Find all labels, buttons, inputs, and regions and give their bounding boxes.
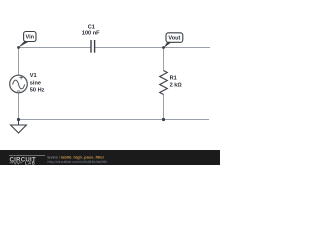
svg-text:100 nF: 100 nF — [82, 31, 100, 37]
svg-text:R1: R1 — [170, 75, 177, 81]
svg-text:sine: sine — [30, 80, 41, 86]
svg-text:50 Hz: 50 Hz — [30, 88, 45, 94]
svg-text:Vout: Vout — [168, 36, 180, 42]
svg-text:2 kΩ: 2 kΩ — [170, 83, 183, 89]
svg-text:levins / lab06_high_pass_filte: levins / lab06_high_pass_filter — [48, 154, 105, 159]
svg-text:V1: V1 — [30, 73, 37, 79]
svg-text:C1: C1 — [88, 24, 95, 30]
svg-text:http://circuitlab.com/c/4hd84k: http://circuitlab.com/c/4hd84k/lab06h — [48, 160, 108, 164]
svg-text:Vin: Vin — [25, 35, 34, 41]
svg-text:LAB: LAB — [25, 160, 35, 165]
